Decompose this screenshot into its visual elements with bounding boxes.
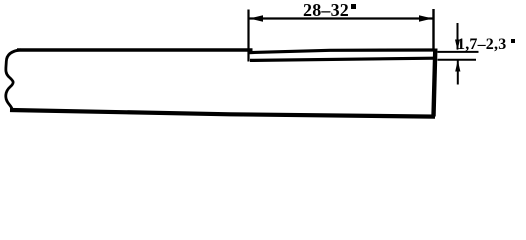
extension line lower (1.7-2.3) bbox=[438, 59, 477, 61]
dimension line 28-32 bbox=[249, 17, 433, 19]
left break line (squiggle) bbox=[6, 50, 21, 110]
extension line upper (1.7-2.3) bbox=[438, 51, 479, 53]
right edge of plate bbox=[434, 49, 436, 117]
bottom edge of plate bbox=[10, 110, 435, 117]
step seat lower edge bbox=[250, 58, 434, 60]
right arrowhead bbox=[419, 15, 433, 21]
extension line right (28-32) bbox=[432, 9, 434, 50]
superscript square mark after 2,3 bbox=[511, 39, 515, 43]
dimension text 28-32 bbox=[303, 0, 349, 21]
left arrowhead bbox=[250, 15, 264, 21]
vertical dimension line upper leg with down arrow bbox=[457, 23, 459, 50]
dimension text 1,7-2,3 bbox=[457, 36, 506, 54]
extension line left (28-32) bbox=[247, 10, 249, 62]
superscript square mark after 28-32 bbox=[351, 4, 356, 9]
step lip top edge bbox=[249, 50, 434, 53]
vertical dimension line lower leg with up arrow bbox=[457, 61, 459, 85]
top surface edge of plate bbox=[17, 48, 253, 51]
